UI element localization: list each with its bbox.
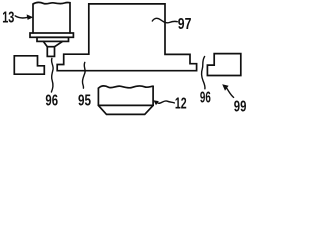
break leader to 96 left <box>51 58 53 92</box>
svg-text:95: 95 <box>78 92 91 109</box>
svg-text:96: 96 <box>200 90 211 107</box>
break leader to 95 <box>82 62 85 88</box>
break leader to 96 right <box>202 57 205 89</box>
torch tip nozzle <box>47 47 54 57</box>
svg-text:99: 99 <box>234 98 247 115</box>
tub 12 trapezoid bottom <box>98 105 153 114</box>
arrowhead to 12 <box>153 100 158 105</box>
block 97 outline <box>57 4 196 71</box>
tub 12 wavy solder surface <box>98 86 153 88</box>
svg-text:12: 12 <box>175 95 187 112</box>
arrowhead to 13 <box>27 14 34 20</box>
arrowhead to 99 <box>222 84 228 91</box>
torch second tier <box>37 37 69 41</box>
tilde leader to 97 <box>152 18 177 23</box>
torch taper left slant <box>44 42 48 47</box>
svg-text:97: 97 <box>178 16 192 33</box>
torch flange <box>30 33 73 37</box>
leader arrow tail to 13 <box>15 16 27 18</box>
tub 12 right wall <box>152 86 154 105</box>
tub 12 shelf line <box>98 104 153 106</box>
tub 12 left wall <box>97 88 99 105</box>
leader arrow tail to 12 <box>158 101 175 103</box>
right end block 99 <box>207 54 240 76</box>
torch taper right slant <box>55 42 63 47</box>
leader arrow tail to 99 <box>227 88 234 97</box>
svg-text:96: 96 <box>45 92 58 109</box>
left clamp block <box>14 56 44 74</box>
svg-text:13: 13 <box>2 9 14 26</box>
torch body 13 <box>33 2 70 33</box>
